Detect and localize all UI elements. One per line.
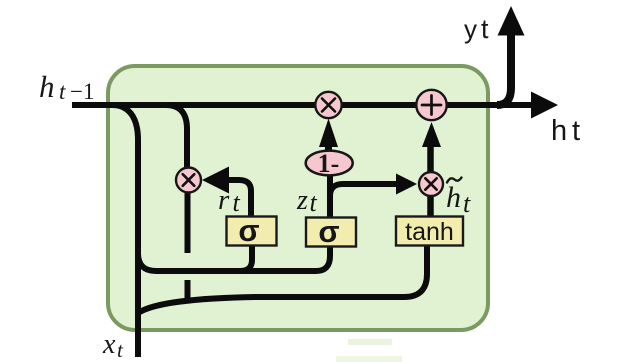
svg-text:1-: 1-	[318, 149, 340, 178]
svg-text:h: h	[446, 181, 461, 214]
svg-text:r: r	[218, 184, 230, 216]
svg-text:σ: σ	[238, 213, 259, 248]
svg-text:z: z	[296, 185, 308, 216]
svg-text:−1: −1	[70, 79, 94, 104]
svg-text:t: t	[572, 115, 580, 147]
svg-text:σ: σ	[318, 214, 339, 249]
svg-text:h: h	[551, 115, 567, 147]
svg-text:x: x	[102, 329, 116, 360]
svg-text:t: t	[481, 14, 489, 44]
svg-text:t: t	[233, 188, 241, 217]
svg-text:h: h	[39, 69, 55, 104]
svg-text:y: y	[464, 14, 477, 44]
svg-text:t: t	[59, 79, 66, 104]
svg-text:tanh: tanh	[405, 218, 454, 246]
svg-text:t: t	[463, 189, 471, 218]
svg-text:t: t	[310, 188, 318, 217]
